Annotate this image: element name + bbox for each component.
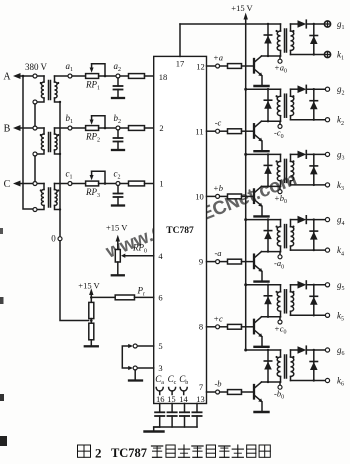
svg-text:+15 V: +15 V — [78, 280, 100, 290]
wire phase A horizontal — [20, 75, 44, 77]
svg-text:380 V: 380 V — [25, 62, 48, 72]
output diode D3b to gate g3 — [291, 153, 298, 155]
svg-text:5: 5 — [158, 341, 162, 351]
svg-text:2: 2 — [95, 445, 102, 460]
input terminal circle +a — [216, 64, 220, 68]
wire resistor to TC787 pin 1 — [145, 183, 154, 185]
freewheel diode D2a across primary — [267, 89, 269, 121]
svg-text:g6: g6 — [337, 345, 345, 357]
potentiometer RP1 — [86, 74, 99, 79]
pulse transformer T2 secondary winding — [290, 89, 292, 96]
pulse transformer T5 core — [284, 290, 286, 313]
protection diode D3c gate-cathode — [313, 154, 315, 185]
svg-text:+c0: +c0 — [274, 323, 287, 335]
protection diode D1c gate-cathode — [313, 24, 315, 55]
pulse transformer T5 secondary winding — [290, 285, 292, 292]
filter capacitor at a2 — [117, 78, 119, 86]
transformer T1 polarity dots — [40, 82, 42, 84]
potentiometer RP3 — [86, 181, 99, 186]
transformer T2 polarity dots — [40, 134, 42, 136]
protection diode D2c gate-cathode — [313, 89, 315, 120]
svg-text:+15 V: +15 V — [231, 3, 253, 13]
svg-text:a2: a2 — [114, 61, 122, 73]
protection diode D6c gate-cathode — [313, 350, 315, 381]
wire c1 to RP3 — [72, 183, 86, 185]
wire collector to primary (channel 6) — [262, 381, 281, 383]
svg-text:-b: -b — [214, 379, 221, 389]
svg-text:12: 12 — [196, 62, 205, 72]
svg-text:C: C — [4, 179, 11, 190]
caption figure 2 — [78, 445, 271, 460]
wire collector to primary (channel 4) — [262, 251, 281, 253]
svg-text:+b: +b — [213, 183, 223, 193]
svg-text:a1: a1 — [66, 61, 74, 73]
transistor Q1 — [253, 59, 255, 73]
gate terminal g4 — [325, 218, 329, 222]
emitter wire and ground (channel 2) — [261, 141, 263, 151]
ground for capacitor c2 — [112, 204, 124, 206]
cathode terminal k2 — [325, 118, 329, 122]
svg-text:g3: g3 — [337, 149, 345, 161]
ground below pin 3 link — [134, 370, 136, 380]
pulse transformer T1 primary winding — [280, 24, 282, 31]
ground for capacitor a2 — [112, 97, 124, 99]
wire collector to primary (channel 5) — [262, 316, 281, 318]
pulse transformer T6 polarity dots — [276, 356, 278, 358]
gate terminal g2 — [325, 87, 329, 91]
wire secondary bottom to cathode k2 — [291, 119, 326, 121]
ground for capacitor b2 — [112, 149, 124, 151]
svg-text:k1: k1 — [337, 50, 344, 62]
+15V supply rail vertical wire — [245, 24, 247, 350]
potentiometer RP2 — [86, 126, 99, 131]
svg-text:B: B — [4, 124, 11, 135]
freewheel diode D5a across primary — [267, 285, 269, 317]
pulse transformer T1 secondary winding — [290, 24, 292, 31]
wire +15V rail to pulse transformer T5 primary (channel 5) — [246, 284, 281, 286]
svg-text:1: 1 — [159, 179, 163, 189]
series resistor b2 to pin 2 — [120, 127, 129, 129]
filter capacitor at b2 — [117, 130, 119, 138]
pulse transformer T5 polarity dots — [276, 291, 278, 293]
emitter wire and ground (channel 4) — [261, 272, 263, 282]
wire secondary bottom to cathode k4 — [291, 249, 326, 251]
cathode terminal k4 — [325, 248, 329, 252]
input terminal circle -a — [216, 260, 220, 264]
wire TC787 pin 9 to input terminal — [207, 261, 216, 263]
svg-text:g4: g4 — [337, 215, 345, 227]
svg-text:9: 9 — [199, 257, 203, 267]
output diode D1b to gate g1 — [291, 23, 298, 25]
transformer T2 primary winding — [43, 128, 45, 134]
svg-text:c2: c2 — [114, 169, 121, 181]
cathode terminal k1 — [324, 51, 330, 57]
svg-text:+a0: +a0 — [274, 63, 287, 75]
transformer T1 primary winding — [43, 76, 45, 82]
svg-text:+15 V: +15 V — [106, 223, 128, 233]
selection link wire between pin5 and pin3 terminals — [122, 346, 129, 368]
wire TC787 pin 11 to input terminal — [207, 130, 216, 132]
wire secondary b bottom to node 0 bus — [55, 150, 61, 154]
svg-text:7: 7 — [199, 382, 203, 392]
svg-text:k5: k5 — [337, 310, 344, 322]
cathode terminal k6 — [325, 378, 329, 382]
test terminal -c0 — [279, 121, 281, 124]
svg-text:+b0: +b0 — [274, 193, 287, 205]
wire pin 5 to link terminal — [137, 345, 154, 347]
wire secondary a top to terminal a1 — [55, 75, 68, 77]
pulse transformer T3 secondary winding — [290, 154, 292, 161]
wire divider junction to resistor — [91, 296, 115, 298]
output diode D6b to gate g6 — [291, 349, 298, 351]
transformer T2 secondary winding — [54, 128, 56, 134]
pulse transformer T6 primary winding — [280, 350, 282, 357]
svg-text:-a0: -a0 — [274, 258, 284, 270]
svg-text:g2: g2 — [337, 84, 345, 96]
svg-text:2: 2 — [159, 123, 163, 133]
svg-text:RP3: RP3 — [85, 187, 100, 199]
gate terminal g6 — [325, 348, 329, 352]
op-amp U1 TC787 IC body — [154, 56, 207, 403]
svg-text:8: 8 — [199, 322, 203, 332]
wire phase C horizontal — [20, 183, 44, 185]
resistor divider lower — [90, 319, 92, 324]
svg-text:k6: k6 — [337, 376, 344, 388]
base resistor R2 — [220, 130, 228, 132]
protection diode D5c gate-cathode — [313, 285, 315, 316]
output diode D5b to gate g5 — [291, 284, 298, 286]
ground for divider — [90, 340, 92, 346]
base resistor R3 — [220, 195, 228, 197]
svg-text:17: 17 — [176, 59, 185, 69]
resistor divider upper — [90, 297, 92, 302]
wire resistor to transistor Q4 base — [242, 261, 254, 263]
svg-text:6: 6 — [158, 293, 162, 303]
base resistor R6 — [220, 391, 228, 393]
base resistor R4 — [220, 261, 228, 263]
wire RP2 to b2 — [99, 127, 116, 129]
gate terminal g1 — [324, 21, 330, 27]
test terminal +c0 — [279, 317, 281, 320]
test terminal -b0 — [279, 382, 281, 385]
wire delta B-primary-bottom to phase C — [34, 156, 36, 182]
svg-text:3: 3 — [158, 363, 162, 373]
svg-text:g1: g1 — [337, 19, 345, 31]
svg-text:RP2: RP2 — [85, 132, 100, 144]
wire resistor to transistor Q5 base — [242, 326, 254, 328]
svg-text:10: 10 — [195, 192, 204, 202]
emitter wire and ground (channel 1) — [261, 76, 263, 86]
wire secondary bottom to cathode k1 — [291, 54, 325, 56]
svg-text:c1: c1 — [66, 169, 73, 181]
input terminal circle -c — [216, 129, 220, 133]
pulse transformer T3 polarity dots — [276, 160, 278, 162]
svg-text:TC787: TC787 — [166, 226, 194, 236]
wire +15V rail to pulse transformer T4 primary (channel 4) — [246, 219, 281, 221]
wire secondary bottom to cathode k3 — [291, 184, 326, 186]
series resistor a2 to pin 18 — [120, 75, 129, 77]
svg-text:0: 0 — [51, 234, 56, 244]
freewheel diode D3a across primary — [267, 154, 269, 186]
transformer T1 primary bottom terminal circle — [33, 100, 37, 104]
wire resistor to TC787 pin 2 — [145, 127, 154, 129]
svg-text:-b0: -b0 — [274, 389, 284, 401]
power arrow +15V RP0 — [117, 241, 119, 250]
output diode D4b to gate g4 — [291, 219, 298, 221]
link terminal circle pin 3 — [133, 366, 137, 370]
test terminal +b0 — [279, 186, 281, 189]
freewheel diode D4a across primary — [267, 220, 269, 252]
wire a1 to RP1 — [72, 75, 86, 77]
link terminal circle pin 5 — [133, 344, 137, 348]
transistor Q2 — [253, 124, 255, 138]
input terminal circle +c — [216, 325, 220, 329]
wire pin17 to +15V rail — [180, 23, 246, 25]
svg-text:-c0: -c0 — [274, 128, 284, 140]
transformer T1 core — [48, 81, 50, 100]
svg-text:18: 18 — [159, 72, 168, 82]
pulse transformer T4 secondary winding — [290, 220, 292, 227]
power arrow +15V rail — [245, 19, 247, 24]
svg-text:-a: -a — [214, 248, 221, 258]
wire secondary a bottom to node 0 bus — [55, 98, 61, 102]
pulse transformer T4 primary winding — [280, 220, 282, 227]
scan artifact marks left edge — [0, 436, 7, 446]
svg-text:16: 16 — [156, 394, 165, 404]
svg-text:k4: k4 — [337, 245, 344, 257]
resistor R6 to pin 6 — [115, 295, 134, 300]
test terminal +a0 — [279, 56, 281, 59]
cathode terminal k3 — [325, 183, 329, 187]
ground symbol bottom rail — [154, 427, 160, 431]
output diode D2b to gate g2 — [291, 88, 298, 90]
svg-text:TC787: TC787 — [111, 446, 147, 460]
wire resistor to pin 6 — [135, 296, 154, 298]
transistor Q4 — [253, 255, 255, 269]
wire TC787 pin 7 to input terminal — [207, 391, 216, 393]
gate terminal g3 — [325, 152, 329, 156]
cathode terminal k5 — [325, 313, 329, 317]
svg-text:15: 15 — [167, 394, 176, 404]
svg-text:A: A — [3, 72, 11, 83]
transistor Q3 — [253, 189, 255, 203]
wire delta A-primary-bottom to phase B — [34, 104, 36, 126]
transformer T3 polarity dots — [40, 189, 42, 191]
transformer T3 core — [48, 188, 50, 207]
base resistor R5 — [220, 326, 228, 328]
wire collector to primary (channel 2) — [262, 120, 281, 122]
transformer T2 primary bottom terminal circle — [33, 152, 37, 156]
protection diode D4c gate-cathode — [313, 220, 315, 251]
transformer T3 secondary winding — [54, 184, 56, 190]
freewheel diode D6a across primary — [267, 350, 269, 382]
wire delta A to C-primary-bottom (left vertical) — [23, 76, 33, 209]
series resistor c2 to pin 1 — [120, 183, 129, 185]
input terminal circle +b — [216, 194, 220, 198]
wire collector to primary (channel 1) — [262, 55, 281, 57]
svg-text:b1: b1 — [66, 113, 74, 125]
transistor Q6 — [253, 385, 255, 399]
capacitor at Cb pin15 — [171, 404, 173, 413]
svg-text:+c: +c — [213, 313, 223, 323]
pulse transformer T4 core — [284, 225, 286, 248]
wire secondary b top to terminal b1 — [55, 127, 68, 129]
emitter wire and ground (channel 3) — [261, 206, 263, 216]
wire phase B horizontal — [20, 127, 44, 129]
wire resistor to transistor Q2 base — [242, 130, 254, 132]
node 0 bus vertical wire — [59, 102, 61, 237]
svg-text:+a: +a — [213, 53, 223, 63]
base resistor R1 — [220, 65, 228, 67]
svg-text:14: 14 — [179, 394, 188, 404]
wire TC787 pin 8 to input terminal — [207, 326, 216, 328]
svg-text:k3: k3 — [337, 180, 344, 192]
pulse transformer T5 primary winding — [280, 285, 282, 292]
pulse transformer T1 core — [284, 29, 286, 52]
wire +15V rail to pulse transformer T6 primary (channel 6) — [246, 349, 281, 351]
wire RP1 to a2 — [99, 75, 116, 77]
capacitor at Ca pin16 — [159, 404, 161, 413]
node circle on phase B wire — [33, 126, 37, 130]
svg-text:-c: -c — [215, 118, 222, 128]
potentiometer RP0 — [115, 250, 120, 263]
capacitor at pin13 — [196, 404, 198, 413]
wire resistor to transistor Q6 base — [242, 391, 254, 393]
node circle on phase C wire — [33, 182, 37, 186]
transformer T1 secondary winding — [54, 76, 56, 82]
wire resistor to transistor Q1 base — [242, 65, 254, 67]
svg-text:g5: g5 — [337, 280, 345, 292]
svg-text:k2: k2 — [337, 115, 344, 127]
pulse transformer T2 polarity dots — [276, 95, 278, 97]
pulse transformer T6 secondary winding — [290, 350, 292, 357]
wire b1 to RP2 — [72, 127, 86, 129]
svg-text:RP1: RP1 — [85, 80, 100, 92]
pulse transformer T6 core — [284, 355, 286, 378]
bottom ground rail wire — [154, 426, 197, 428]
wire resistor to TC787 pin 18 — [145, 75, 154, 77]
wire node 0 down to divider junction — [60, 241, 89, 321]
freewheel diode D1a across primary — [267, 24, 269, 56]
wire pin 3 to link terminal — [137, 367, 154, 369]
power arrow +15V divider — [90, 295, 92, 298]
transistor Q5 — [253, 320, 255, 334]
wire collector to primary (channel 3) — [262, 185, 281, 187]
wire +15V rail to pulse transformer T2 primary (channel 2) — [246, 88, 281, 90]
wire secondary c top to terminal c1 — [55, 183, 68, 185]
emitter wire and ground (channel 5) — [261, 337, 263, 347]
wiper wire RP0 to pin 4 — [124, 255, 153, 257]
pulse transformer T4 polarity dots — [276, 226, 278, 228]
pulse transformer T2 primary winding — [280, 89, 282, 96]
wire +15V rail to pulse transformer T3 primary (channel 3) — [246, 153, 281, 155]
wire TC787 pin 12 to input terminal — [207, 65, 216, 67]
input terminal circle -b — [216, 390, 220, 394]
watermark ChinaECNet diagonal center — [102, 169, 300, 263]
svg-text:b2: b2 — [114, 113, 122, 125]
ground for RP0 — [117, 262, 119, 275]
svg-text:Pr: Pr — [137, 285, 146, 297]
pulse transformer T3 core — [284, 159, 286, 182]
test terminal -a0 — [279, 252, 281, 255]
filter capacitor at c2 — [117, 186, 119, 194]
wire TC787 pin 10 to input terminal — [207, 195, 216, 197]
wire +15V rail to pulse transformer T1 primary (channel 1) — [246, 23, 281, 25]
emitter wire and ground (channel 6) — [261, 402, 263, 412]
transformer T2 core — [48, 133, 50, 152]
wire secondary bottom to cathode k5 — [291, 314, 326, 316]
pulse transformer T1 polarity dots — [276, 30, 278, 32]
svg-text:11: 11 — [195, 127, 203, 137]
transformer T3 primary winding — [43, 184, 45, 190]
wire secondary bottom to cathode k6 — [291, 380, 326, 382]
node circle on phase A wire — [33, 74, 37, 78]
wire resistor to transistor Q3 base — [242, 195, 254, 197]
capacitor at Cc pin14 — [184, 404, 186, 413]
pulse transformer T2 core — [284, 94, 286, 117]
svg-text:13: 13 — [196, 394, 205, 404]
gate terminal g5 — [325, 283, 329, 287]
wire secondary c bottom to node 0 bus — [55, 206, 61, 210]
wire RP3 to c2 — [99, 183, 116, 185]
pulse transformer T3 primary winding — [280, 154, 282, 161]
transformer T3 primary bottom terminal circle — [33, 208, 37, 212]
